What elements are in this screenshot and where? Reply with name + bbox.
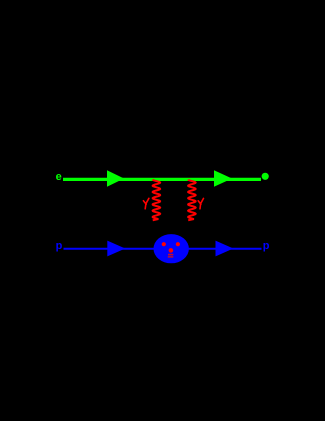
blob right eye dot — [176, 242, 180, 246]
photon 1 (wavy line, gamma) — [153, 180, 161, 221]
blob mouth stripe 2 — [168, 256, 174, 258]
label gamma 2 — [198, 198, 203, 208]
svg-text:p: p — [56, 240, 63, 252]
svg-text:e: e — [56, 171, 62, 183]
svg-text:p: p — [263, 240, 270, 252]
label gamma 1 — [143, 198, 149, 209]
proton arrow 1 — [107, 241, 125, 257]
blob mouth stripe 1 — [168, 254, 173, 256]
electron arrow 1 — [107, 170, 124, 186]
proton line (blue) — [64, 248, 262, 250]
photon 2 (wavy line, gamma) — [188, 180, 196, 221]
proton arrow 2 — [216, 241, 234, 257]
electron arrow 2 — [214, 170, 232, 186]
blob nose dot — [169, 248, 174, 253]
electron line (green) — [63, 178, 261, 181]
scattered electron dot — [262, 173, 269, 180]
proton blob (hadronic intermediate state) — [154, 234, 189, 263]
blob left eye dot — [162, 242, 166, 246]
